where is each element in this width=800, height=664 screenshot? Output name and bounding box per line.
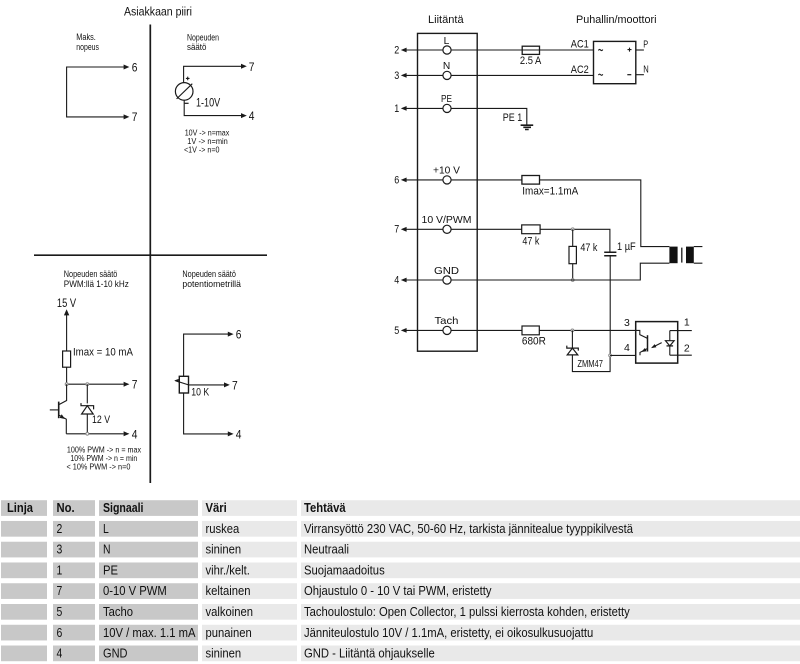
wire pin2 — [670, 354, 692, 356]
arrowhead to 6 — [124, 65, 130, 70]
LED in opto — [669, 331, 671, 341]
svg-text:Signaali: Signaali — [103, 500, 144, 515]
svg-text:1: 1 — [684, 317, 690, 329]
svg-text:Asiakkaan piiri: Asiakkaan piiri — [124, 5, 192, 19]
wire: pot bottom to 4 — [184, 393, 229, 434]
wire Tach to resistor — [451, 329, 522, 331]
svg-text:4: 4 — [249, 109, 255, 123]
svg-text:Linja: Linja — [7, 500, 34, 515]
svg-text:47 k: 47 k — [580, 242, 597, 254]
arrowhead to 7 — [124, 114, 130, 119]
wire +10V to resistor — [451, 179, 522, 181]
stub N — [636, 74, 644, 76]
resistor 680R — [522, 326, 539, 335]
svg-text:2: 2 — [394, 44, 399, 56]
svg-text:sininen: sininen — [206, 646, 242, 661]
svg-text:Väri: Väri — [206, 500, 227, 515]
light arrow — [652, 343, 661, 348]
resistor 47k horizontal — [522, 225, 540, 234]
svg-text:1 µF: 1 µF — [617, 241, 636, 253]
table row 5 — [1, 604, 47, 620]
terminal block box — [418, 33, 478, 351]
svg-text:säätö: säätö — [187, 42, 206, 52]
svg-text:PE: PE — [441, 94, 452, 105]
ground PE1 — [521, 125, 534, 129]
svg-text:L: L — [444, 36, 450, 47]
svg-text:5: 5 — [394, 325, 399, 337]
table row 3 — [1, 562, 47, 578]
svg-text:Neutraali: Neutraali — [304, 542, 349, 557]
wire PE to ground — [451, 108, 527, 125]
svg-text:N: N — [103, 542, 111, 557]
svg-text:Tachoulostulo: Open Collector,: Tachoulostulo: Open Collector, 1 pulssi … — [304, 604, 630, 619]
junction — [571, 279, 574, 282]
svg-text:+10 V: +10 V — [433, 166, 460, 177]
svg-text:680R: 680R — [522, 335, 546, 347]
svg-text:Maks.: Maks. — [76, 32, 96, 42]
arrowhead to 7 — [124, 382, 130, 387]
arrowhead to 4 — [124, 431, 130, 436]
svg-text:47 k: 47 k — [522, 236, 539, 248]
svg-text:ZMM47: ZMM47 — [577, 358, 603, 370]
svg-text:PE 1: PE 1 — [503, 112, 523, 124]
svg-text:2.5 A: 2.5 A — [520, 55, 542, 67]
wire: wiper to 7 — [189, 384, 225, 386]
wire: 15V to resistor — [66, 315, 68, 352]
table row 2 — [1, 542, 47, 558]
plus sign — [186, 77, 190, 81]
svg-text:4: 4 — [132, 427, 138, 441]
svg-text:Nopeuden säätö: Nopeuden säätö — [64, 269, 118, 279]
svg-text:2: 2 — [684, 343, 690, 355]
svg-text:Tach: Tach — [435, 316, 459, 327]
potentiometer R2 10K — [179, 376, 188, 393]
junction — [86, 432, 89, 435]
svg-text:0-10 V PWM: 0-10 V PWM — [103, 583, 167, 598]
svg-text:PWM:llä 1-10 kHz: PWM:llä 1-10 kHz — [64, 279, 129, 289]
svg-text:Imax = 10 mA: Imax = 10 mA — [73, 346, 133, 358]
svg-text:N: N — [643, 64, 649, 75]
wire GND to connector bottom — [451, 263, 669, 280]
svg-text:1: 1 — [57, 562, 63, 577]
svg-text:vihr./kelt.: vihr./kelt. — [206, 562, 250, 577]
arrowhead to 7 — [224, 382, 230, 387]
svg-text:4: 4 — [236, 427, 242, 441]
svg-text:5: 5 — [57, 604, 63, 619]
resistor Imax=1.1mA — [522, 176, 540, 185]
svg-text:Virransyöttö 230 VAC, 50-60 Hz: Virransyöttö 230 VAC, 50-60 Hz, tarkista… — [304, 521, 634, 536]
arrowhead to 6 — [228, 332, 234, 337]
svg-text:7: 7 — [132, 110, 138, 124]
svg-text:ruskea: ruskea — [206, 521, 241, 536]
svg-text:6: 6 — [394, 174, 399, 186]
svg-text:4: 4 — [394, 274, 399, 286]
svg-text:7: 7 — [232, 378, 238, 392]
zener D1 12V — [81, 403, 94, 409]
minus terminal — [627, 74, 631, 76]
svg-text:7: 7 — [394, 224, 399, 236]
svg-text:GND: GND — [434, 266, 459, 277]
divider horizontal — [34, 254, 267, 256]
svg-text:10 K: 10 K — [191, 387, 209, 399]
ac symbol bottom — [598, 74, 602, 75]
table row 7 — [1, 646, 47, 662]
wire: emitter to 4 — [66, 433, 123, 435]
junction — [609, 354, 612, 357]
svg-text:GND: GND — [103, 646, 128, 661]
svg-text:punainen: punainen — [206, 625, 252, 640]
zener D2 ZMM47 — [571, 330, 573, 348]
svg-text:Nopeuden säätö: Nopeuden säätö — [182, 269, 236, 279]
svg-text:nopeus: nopeus — [76, 42, 99, 52]
svg-text:Tehtävä: Tehtävä — [304, 500, 346, 515]
svg-text:< 10% PWM -> n=0: < 10% PWM -> n=0 — [67, 462, 131, 472]
resistor 47k vertical — [572, 229, 574, 246]
wire resistor to connector — [540, 180, 670, 247]
svg-text:3: 3 — [394, 70, 399, 82]
wire to opto pin4 — [610, 354, 636, 356]
svg-text:15 V: 15 V — [57, 296, 76, 310]
fuse F1 2.5A — [522, 46, 539, 54]
wire: resistor to junction — [66, 367, 68, 384]
svg-text:Tacho: Tacho — [103, 604, 133, 619]
svg-text:7: 7 — [57, 583, 63, 598]
svg-text:1: 1 — [394, 103, 399, 115]
svg-text:7: 7 — [249, 60, 255, 74]
phototransistor — [636, 330, 648, 338]
svg-text:Jänniteulostulo 10V / 1.1mA, e: Jänniteulostulo 10V / 1.1mA, eristetty, … — [304, 625, 593, 640]
svg-text:10 V/PWM: 10 V/PWM — [422, 215, 472, 226]
svg-text:N: N — [443, 61, 450, 72]
svg-text:Suojamaadoitus: Suojamaadoitus — [304, 562, 385, 577]
junction — [86, 383, 89, 386]
wire resistor to cap corner — [540, 229, 610, 252]
svg-text:AC2: AC2 — [571, 64, 589, 76]
connector pair symbol — [669, 247, 677, 264]
svg-text:1-10V: 1-10V — [196, 96, 220, 110]
table row 6 — [1, 625, 47, 641]
junction — [65, 383, 68, 386]
svg-text:6: 6 — [236, 327, 242, 341]
svg-text:12 V: 12 V — [92, 414, 110, 426]
plus terminal — [628, 48, 632, 52]
svg-text:L: L — [103, 521, 109, 536]
svg-text:P: P — [643, 40, 648, 51]
wire PWM to resistor — [451, 228, 522, 230]
svg-text:Imax=1.1mA: Imax=1.1mA — [522, 185, 578, 197]
svg-text:sininen: sininen — [206, 542, 242, 557]
svg-text:AC1: AC1 — [571, 38, 589, 50]
arrowhead to 4 — [241, 113, 247, 118]
wire: junction to zener — [86, 384, 88, 403]
svg-text:4: 4 — [57, 646, 63, 661]
wire N to motor — [451, 74, 593, 76]
table row 4 — [1, 583, 47, 599]
svg-text:Nopeuden: Nopeuden — [187, 32, 219, 42]
wire pin1 — [670, 330, 692, 332]
wire: pot top to 6 — [184, 334, 229, 376]
svg-text:potentiometrillä: potentiometrillä — [182, 279, 241, 289]
minus sign — [185, 102, 189, 104]
svg-text:6: 6 — [57, 625, 63, 640]
wire resistor to opto — [539, 329, 635, 331]
junction — [571, 228, 574, 231]
svg-text:valkoinen: valkoinen — [206, 604, 254, 619]
wire L to motor — [451, 49, 593, 51]
svg-text:keltainen: keltainen — [206, 583, 251, 598]
svg-text:<1V -> n=0: <1V -> n=0 — [184, 144, 220, 154]
arrowhead to 7 — [241, 64, 247, 69]
capacitor C1 1uF — [604, 252, 616, 256]
table row 1 — [1, 521, 47, 537]
svg-text:GND - Liitäntä ohjaukselle: GND - Liitäntä ohjaukselle — [304, 646, 435, 661]
svg-text:No.: No. — [57, 500, 75, 515]
arrowhead to 4 — [228, 431, 234, 436]
svg-text:10V / max. 1.1 mA: 10V / max. 1.1 mA — [103, 625, 196, 640]
ac symbol top — [598, 49, 602, 50]
divider vertical — [149, 25, 151, 484]
svg-text:Puhallin/moottori: Puhallin/moottori — [576, 14, 657, 26]
svg-text:2: 2 — [57, 521, 63, 536]
svg-text:4: 4 — [624, 342, 630, 354]
svg-text:PE: PE — [103, 562, 118, 577]
wire: maks nopeus bracket — [67, 67, 124, 117]
svg-text:Liitäntä: Liitäntä — [428, 14, 464, 26]
stub P — [636, 49, 644, 51]
arrowhead up 15V — [64, 309, 69, 315]
transistor Q1 — [59, 384, 66, 404]
svg-text:Ohjaustulo 0 - 10 V tai PWM, e: Ohjaustulo 0 - 10 V tai PWM, eristetty — [304, 583, 492, 598]
motor box M1 — [594, 41, 636, 83]
wire: source top to 7 — [184, 66, 242, 82]
table row 0 — [1, 500, 47, 516]
svg-text:6: 6 — [132, 60, 138, 74]
optocoupler U1 — [636, 322, 678, 364]
svg-text:7: 7 — [132, 378, 138, 392]
wire: source bottom to 4 — [184, 100, 241, 115]
wire: junction to 7 — [67, 383, 124, 385]
voltage source V1 1-10V — [175, 83, 193, 101]
svg-text:3: 3 — [624, 317, 630, 329]
resistor R1 — [63, 351, 71, 367]
svg-text:3: 3 — [57, 542, 63, 557]
junction — [571, 329, 574, 332]
